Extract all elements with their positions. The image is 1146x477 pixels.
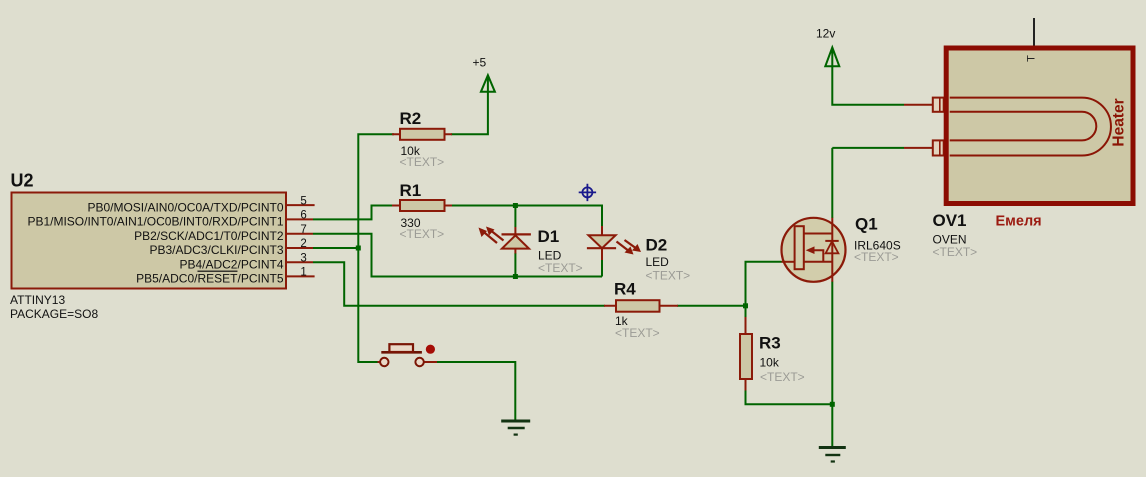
svg-text:<TEXT>: <TEXT> [615, 326, 660, 340]
oven OV1 labels [933, 211, 967, 230]
svg-text:ATTINY13: ATTINY13 [10, 293, 65, 307]
wire: 12v to heater top pin [832, 66, 904, 105]
pin stub 6 [286, 218, 313, 220]
svg-text:PB3/ADC3/CLKI/PCINT3: PB3/ADC3/CLKI/PCINT3 [149, 243, 283, 257]
pin numbers [300, 195, 306, 278]
svg-text:1: 1 [300, 267, 306, 279]
power +5 arrow [481, 75, 495, 92]
svg-text:6: 6 [300, 210, 306, 222]
svg-text:<TEXT>: <TEXT> [646, 269, 691, 283]
wire: pin2 to pullup vertical [313, 247, 358, 249]
svg-text:<TEXT>: <TEXT> [400, 227, 445, 241]
node junction pin2 [356, 246, 361, 251]
svg-text:T: T [1026, 55, 1038, 62]
svg-text:U2: U2 [11, 171, 34, 191]
oven OV1 bottom pin terminal [933, 140, 944, 155]
node junction R1/D1 [513, 203, 518, 208]
svg-text:R2: R2 [400, 109, 422, 128]
wire: D2 vertical bottom [601, 260, 603, 277]
svg-text:Q1: Q1 [855, 214, 878, 233]
svg-text:R3: R3 [759, 334, 781, 353]
svg-text:PACKAGE=SO8: PACKAGE=SO8 [10, 307, 98, 321]
node junction source/ground rail [830, 402, 835, 407]
wire: R2 left / pullup vertical to button [358, 134, 394, 362]
LED D2 [587, 226, 641, 260]
svg-text:R4: R4 [614, 279, 636, 298]
svg-text:PB5/ADC0/RESET/PCINT5: PB5/ADC0/RESET/PCINT5 [136, 272, 284, 286]
svg-text:+5: +5 [473, 55, 487, 69]
wire: LED bottom rail to pin7 [313, 234, 602, 277]
svg-text:Heater: Heater [1111, 98, 1128, 146]
svg-text:<TEXT>: <TEXT> [538, 261, 583, 275]
svg-text:2: 2 [300, 238, 306, 250]
svg-text:5: 5 [300, 195, 306, 207]
svg-text:PB4/ADC2/PCINT4: PB4/ADC2/PCINT4 [179, 257, 283, 271]
wire: R1 output to D2 top [451, 206, 602, 227]
resistor R4 labels [614, 279, 636, 298]
node junction D1 bottom [513, 274, 518, 279]
svg-text:Емеля: Емеля [996, 214, 1042, 230]
svg-text:<TEXT>: <TEXT> [400, 155, 445, 169]
power 12v arrow [825, 47, 839, 66]
wire: D1 vertical top [514, 206, 516, 228]
resistor R3 labels [759, 334, 781, 353]
svg-text:10k: 10k [760, 355, 780, 369]
resistor R4 [604, 300, 678, 312]
svg-text:D2: D2 [646, 235, 668, 254]
heater text [1111, 98, 1128, 146]
oven name label [996, 214, 1042, 230]
wire: Q1 drain up to heater bottom pin [832, 148, 904, 218]
oven temperature pin T [1026, 18, 1038, 62]
pin stub 3 [286, 261, 313, 263]
wire: gate node up to Q1 gate [746, 262, 782, 306]
oven OV1 heater pin leads [904, 105, 933, 148]
svg-text:LED: LED [646, 255, 670, 269]
svg-text:PB1/MISO/INT0/AIN1/OC0B/INT0/R: PB1/MISO/INT0/AIN1/OC0B/INT0/RXD/PCINT1 [27, 215, 283, 229]
wire: R2 right to +5 [451, 92, 488, 135]
wire: R3 bottom to source rail [746, 390, 833, 405]
pin stub 1 [286, 275, 315, 277]
svg-text:<TEXT>: <TEXT> [760, 370, 805, 384]
push button [378, 344, 438, 366]
pin stub 5 [286, 204, 315, 206]
wire: button right to ground [437, 362, 515, 421]
power 12v label [816, 27, 835, 41]
node junction R4/R3/gate [743, 303, 748, 308]
svg-text:PB2/SCK/ADC1/T0/PCINT2: PB2/SCK/ADC1/T0/PCINT2 [134, 229, 284, 243]
MOSFET Q1 [782, 218, 846, 282]
svg-text:12v: 12v [816, 27, 835, 41]
svg-text:3: 3 [300, 252, 306, 264]
svg-text:R1: R1 [400, 181, 422, 200]
resistor R3 [740, 317, 752, 391]
LED D2 labels [646, 235, 668, 254]
ground (button) [501, 421, 530, 435]
chip U2 value labels [10, 293, 98, 321]
MOSFET Q1 labels [855, 214, 878, 233]
oven OV1 top pin terminal [933, 98, 944, 112]
origin marker [579, 184, 596, 201]
wire: Q1 source down to ground [831, 282, 833, 448]
chip U2 body [12, 193, 287, 289]
svg-text:D1: D1 [538, 227, 560, 246]
resistor R2 [392, 129, 452, 140]
heater element hairpin [950, 98, 1111, 156]
resistor R1 labels [400, 181, 422, 200]
wire: pin3 to R4 [313, 262, 605, 306]
ground (Q1 source) [819, 448, 846, 462]
resistor R1 [392, 200, 452, 211]
chip U2 pin names [27, 200, 283, 285]
wire: R3 top lead wire [745, 306, 747, 318]
pin stub 7 [286, 233, 313, 235]
svg-text:OV1: OV1 [933, 211, 967, 230]
button actuator dot [426, 345, 435, 354]
resistor R2 labels [400, 109, 422, 128]
wire: R4 to gate node [677, 305, 746, 307]
svg-text:<TEXT>: <TEXT> [854, 250, 899, 264]
LED D1 labels [538, 227, 560, 246]
pin stub 2 [286, 247, 313, 249]
chip U2 designator label [11, 171, 34, 191]
svg-text:7: 7 [300, 224, 306, 236]
power +5 label [473, 55, 487, 69]
oven OV1 body [946, 48, 1133, 204]
wire: pin6 to R1 jog [313, 206, 394, 220]
svg-text:PB0/MOSI/AIN0/OC0A/TXD/PCINT0: PB0/MOSI/AIN0/OC0A/TXD/PCINT0 [87, 200, 283, 214]
LED D1 [479, 227, 531, 254]
wire: D1 vertical bottom [514, 253, 516, 277]
svg-text:<TEXT>: <TEXT> [933, 245, 978, 259]
